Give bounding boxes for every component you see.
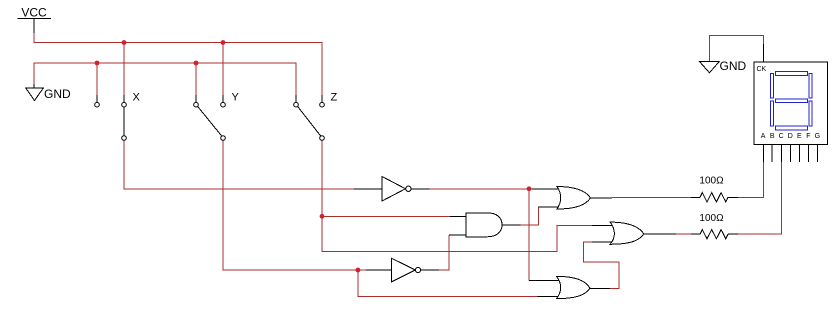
svg-text:100Ω: 100Ω [699,213,724,224]
pin C [781,145,783,162]
segment bottom-right [809,101,812,126]
display body [754,62,828,145]
svg-text:CK: CK [757,66,767,73]
wire GND2 to display CK pin [709,36,763,61]
svg-text:D: D [788,133,793,140]
svg-text:GND: GND [44,87,71,101]
OR gate U6 [529,276,610,298]
wire VCC to switch Y right terminal [222,43,224,96]
junction on GND rail at Y [194,61,199,66]
pin B [771,145,773,162]
svg-text:GND: GND [720,59,747,73]
segment bottom [776,126,808,130]
wire net Y branch to OR3 lower input [358,270,538,297]
segment bottom-left [770,101,773,126]
svg-text:Z: Z [331,92,338,104]
wire net X: switch X to NOT1 input [124,140,354,188]
wire OR1 output to resistor R1 [612,196,691,198]
segment top-right [809,73,812,98]
wire NOT1 output to OR1 upper input [430,188,530,190]
OR gate U5 [592,222,676,244]
wire NOT1 output branch down to OR3 upper input [528,189,530,281]
pin G [816,145,818,162]
wire VCC to switch X right terminal [123,43,125,96]
wire net Z: switch Z down, to OR2 upper input [322,140,592,251]
wire R1 to display pin A [738,162,763,198]
svg-text:G: G [815,133,820,140]
pin F [807,145,809,162]
segment top [776,72,808,76]
svg-text:F: F [806,133,810,140]
OR gate U4 [531,187,612,210]
svg-text:VCC: VCC [21,6,47,20]
pin E [798,145,800,162]
wire GND rail [34,63,296,96]
svg-text:A: A [761,133,766,140]
switch Y [194,92,240,141]
pin A [762,145,764,162]
svg-text:C: C [779,133,784,140]
resistor R1 [691,193,738,202]
AND gate U3 [449,213,521,237]
power VCC [18,6,52,34]
NOT gate U1 (inverter, input X) [354,177,430,202]
NOT gate U2 (inverter, input Y) [366,258,439,282]
junction on VCC rail at X [122,40,127,45]
svg-text:X: X [133,92,141,104]
wire R2 to display pin C [738,162,782,235]
ground GND2 [700,59,747,73]
seven-segment display U7 [754,44,828,162]
wire NOT2 output to AND lower input [439,235,449,270]
pin CK stub [762,44,764,62]
junction net Y [356,268,361,273]
segment top-left [770,73,773,98]
junction NOT1 output [527,186,532,191]
wire VCC rail [34,33,322,96]
svg-text:E: E [797,133,802,140]
switch Z [294,92,338,141]
svg-text:B: B [770,133,775,140]
wire AND output to OR1 lower input [521,207,545,225]
ground GND1 [26,84,71,101]
resistor R2 [691,230,738,239]
wire GND to switch Y left terminal [195,63,197,96]
junction on VCC rail at Y [221,40,226,45]
pin D [789,145,791,162]
junction on GND rail at X [95,61,100,66]
segment middle [776,99,808,102]
wire OR2 output to resistor R2 [676,233,691,235]
wire net Y: switch Y to NOT2 input [223,140,366,270]
switch X [95,92,141,141]
svg-text:Y: Y [232,92,240,104]
junction net Z [320,214,325,219]
wire net Z branch to AND gate upper input [322,215,450,217]
wire OR3 output to OR2 lower input [583,242,619,288]
svg-text:100Ω: 100Ω [699,176,724,187]
wire GND to switch X left terminal [96,63,98,96]
